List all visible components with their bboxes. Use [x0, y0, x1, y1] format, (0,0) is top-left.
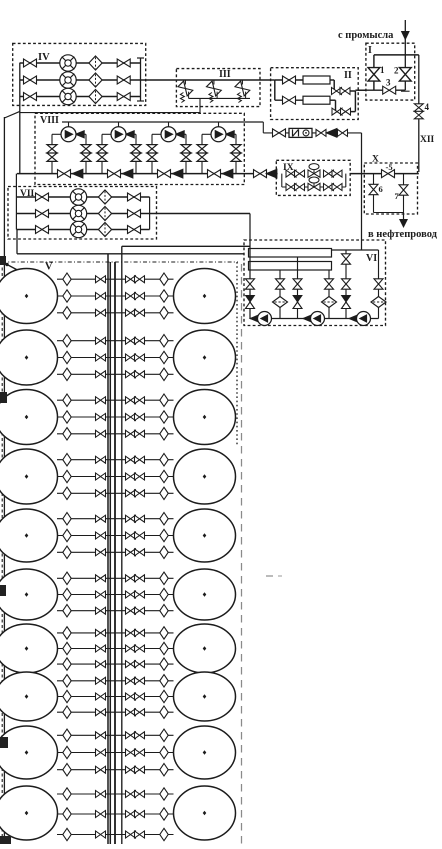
svg-text:XII: XII [420, 135, 435, 145]
svg-text:-5: -5 [386, 162, 393, 172]
svg-text:II: II [344, 70, 352, 81]
svg-text:IV: IV [38, 52, 50, 63]
svg-text:6: 6 [379, 184, 383, 194]
svg-text:3: 3 [386, 78, 391, 88]
svg-text:2: 2 [394, 66, 399, 76]
svg-text:III: III [219, 69, 231, 80]
svg-text:VIII: VIII [40, 115, 59, 126]
svg-text:с промысла: с промысла [338, 30, 394, 41]
svg-text:V: V [45, 262, 53, 273]
svg-text:в нефтепровод: в нефтепровод [368, 229, 438, 240]
svg-text:VI: VI [366, 253, 377, 264]
svg-text:1: 1 [380, 65, 385, 75]
svg-text:I: I [368, 45, 372, 56]
svg-text:X: X [372, 155, 379, 165]
svg-text:4: 4 [425, 102, 430, 112]
